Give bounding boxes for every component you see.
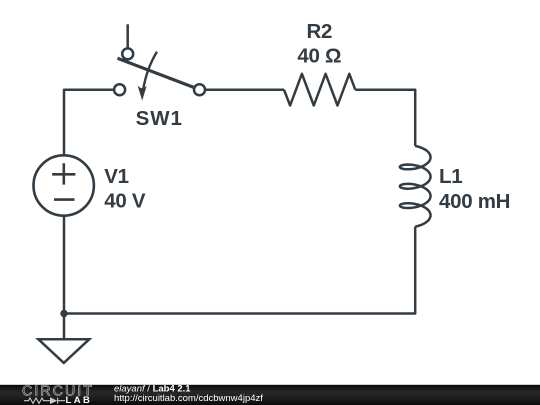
resistor R2 (284, 74, 355, 106)
V1 minus terminal mark (54, 198, 75, 201)
wire (64, 227, 415, 314)
svg-text:http://circuitlab.com/cdcbwnw4: http://circuitlab.com/cdcbwnw4jp4zf (114, 393, 263, 404)
svg-text:L1: L1 (439, 165, 462, 188)
inductor L1 (400, 146, 431, 227)
svg-text:400 mH: 400 mH (439, 190, 510, 213)
svg-text:40 V: 40 V (104, 190, 146, 213)
switch SW1 right pole terminal (194, 84, 205, 95)
logo resistor-diode (24, 398, 65, 404)
wire (205, 88, 284, 91)
V1 plus terminal mark (52, 163, 75, 184)
switch SW1 actuation arrow arc (143, 52, 157, 90)
svg-text:40 Ω: 40 Ω (297, 44, 341, 67)
svg-text:LAB: LAB (66, 395, 93, 405)
wire (63, 216, 66, 339)
ground (38, 339, 89, 363)
switch SW1 lever (118, 58, 194, 87)
logo diode triangle (50, 397, 57, 404)
switch SW1 left pole terminal (114, 84, 125, 95)
wire (355, 90, 415, 146)
svg-text:SW1: SW1 (136, 107, 183, 130)
voltage source V1 body (34, 155, 94, 215)
node junction (60, 310, 67, 317)
footer bar (0, 385, 540, 405)
svg-text:R2: R2 (306, 20, 332, 43)
svg-text:V1: V1 (104, 165, 128, 188)
switch SW1 throw terminal (122, 48, 133, 59)
switch SW1 throw stub wire (126, 24, 129, 48)
wire (64, 90, 115, 156)
switch action arrowhead (138, 85, 147, 100)
